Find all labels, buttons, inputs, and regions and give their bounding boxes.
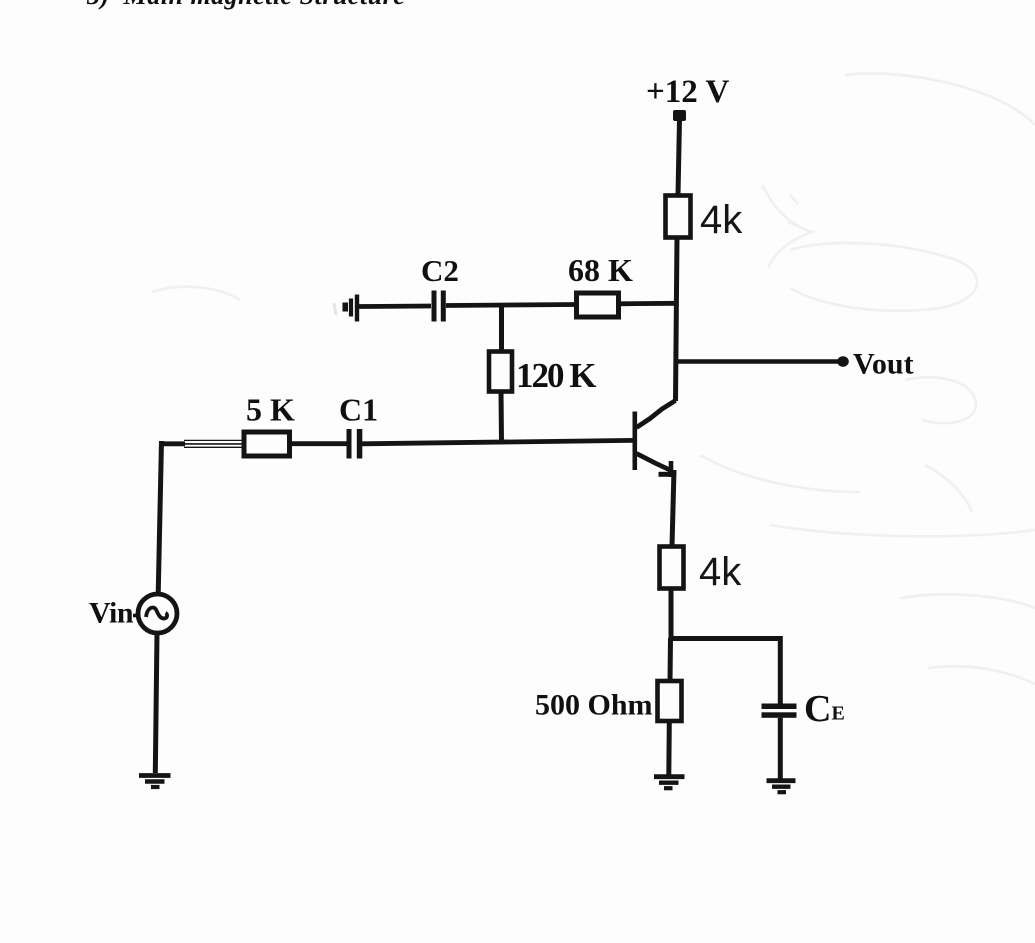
svg-text:C2: C2 [421, 253, 459, 288]
svg-text:120 K: 120 K [516, 356, 596, 395]
svg-text:Vout: Vout [853, 348, 914, 381]
svg-text:500 Ohm: 500 Ohm [535, 689, 653, 722]
svg-text:+12 V: +12 V [646, 74, 729, 110]
svg-text:4k: 4k [700, 198, 743, 242]
svg-text:68 K: 68 K [568, 252, 633, 288]
svg-text:4k: 4k [699, 550, 742, 594]
svg-text:Vin: Vin [89, 597, 134, 630]
svg-text:CE: CE [804, 688, 845, 730]
svg-text:C1: C1 [339, 392, 378, 428]
svg-text:5 K: 5 K [246, 392, 295, 428]
